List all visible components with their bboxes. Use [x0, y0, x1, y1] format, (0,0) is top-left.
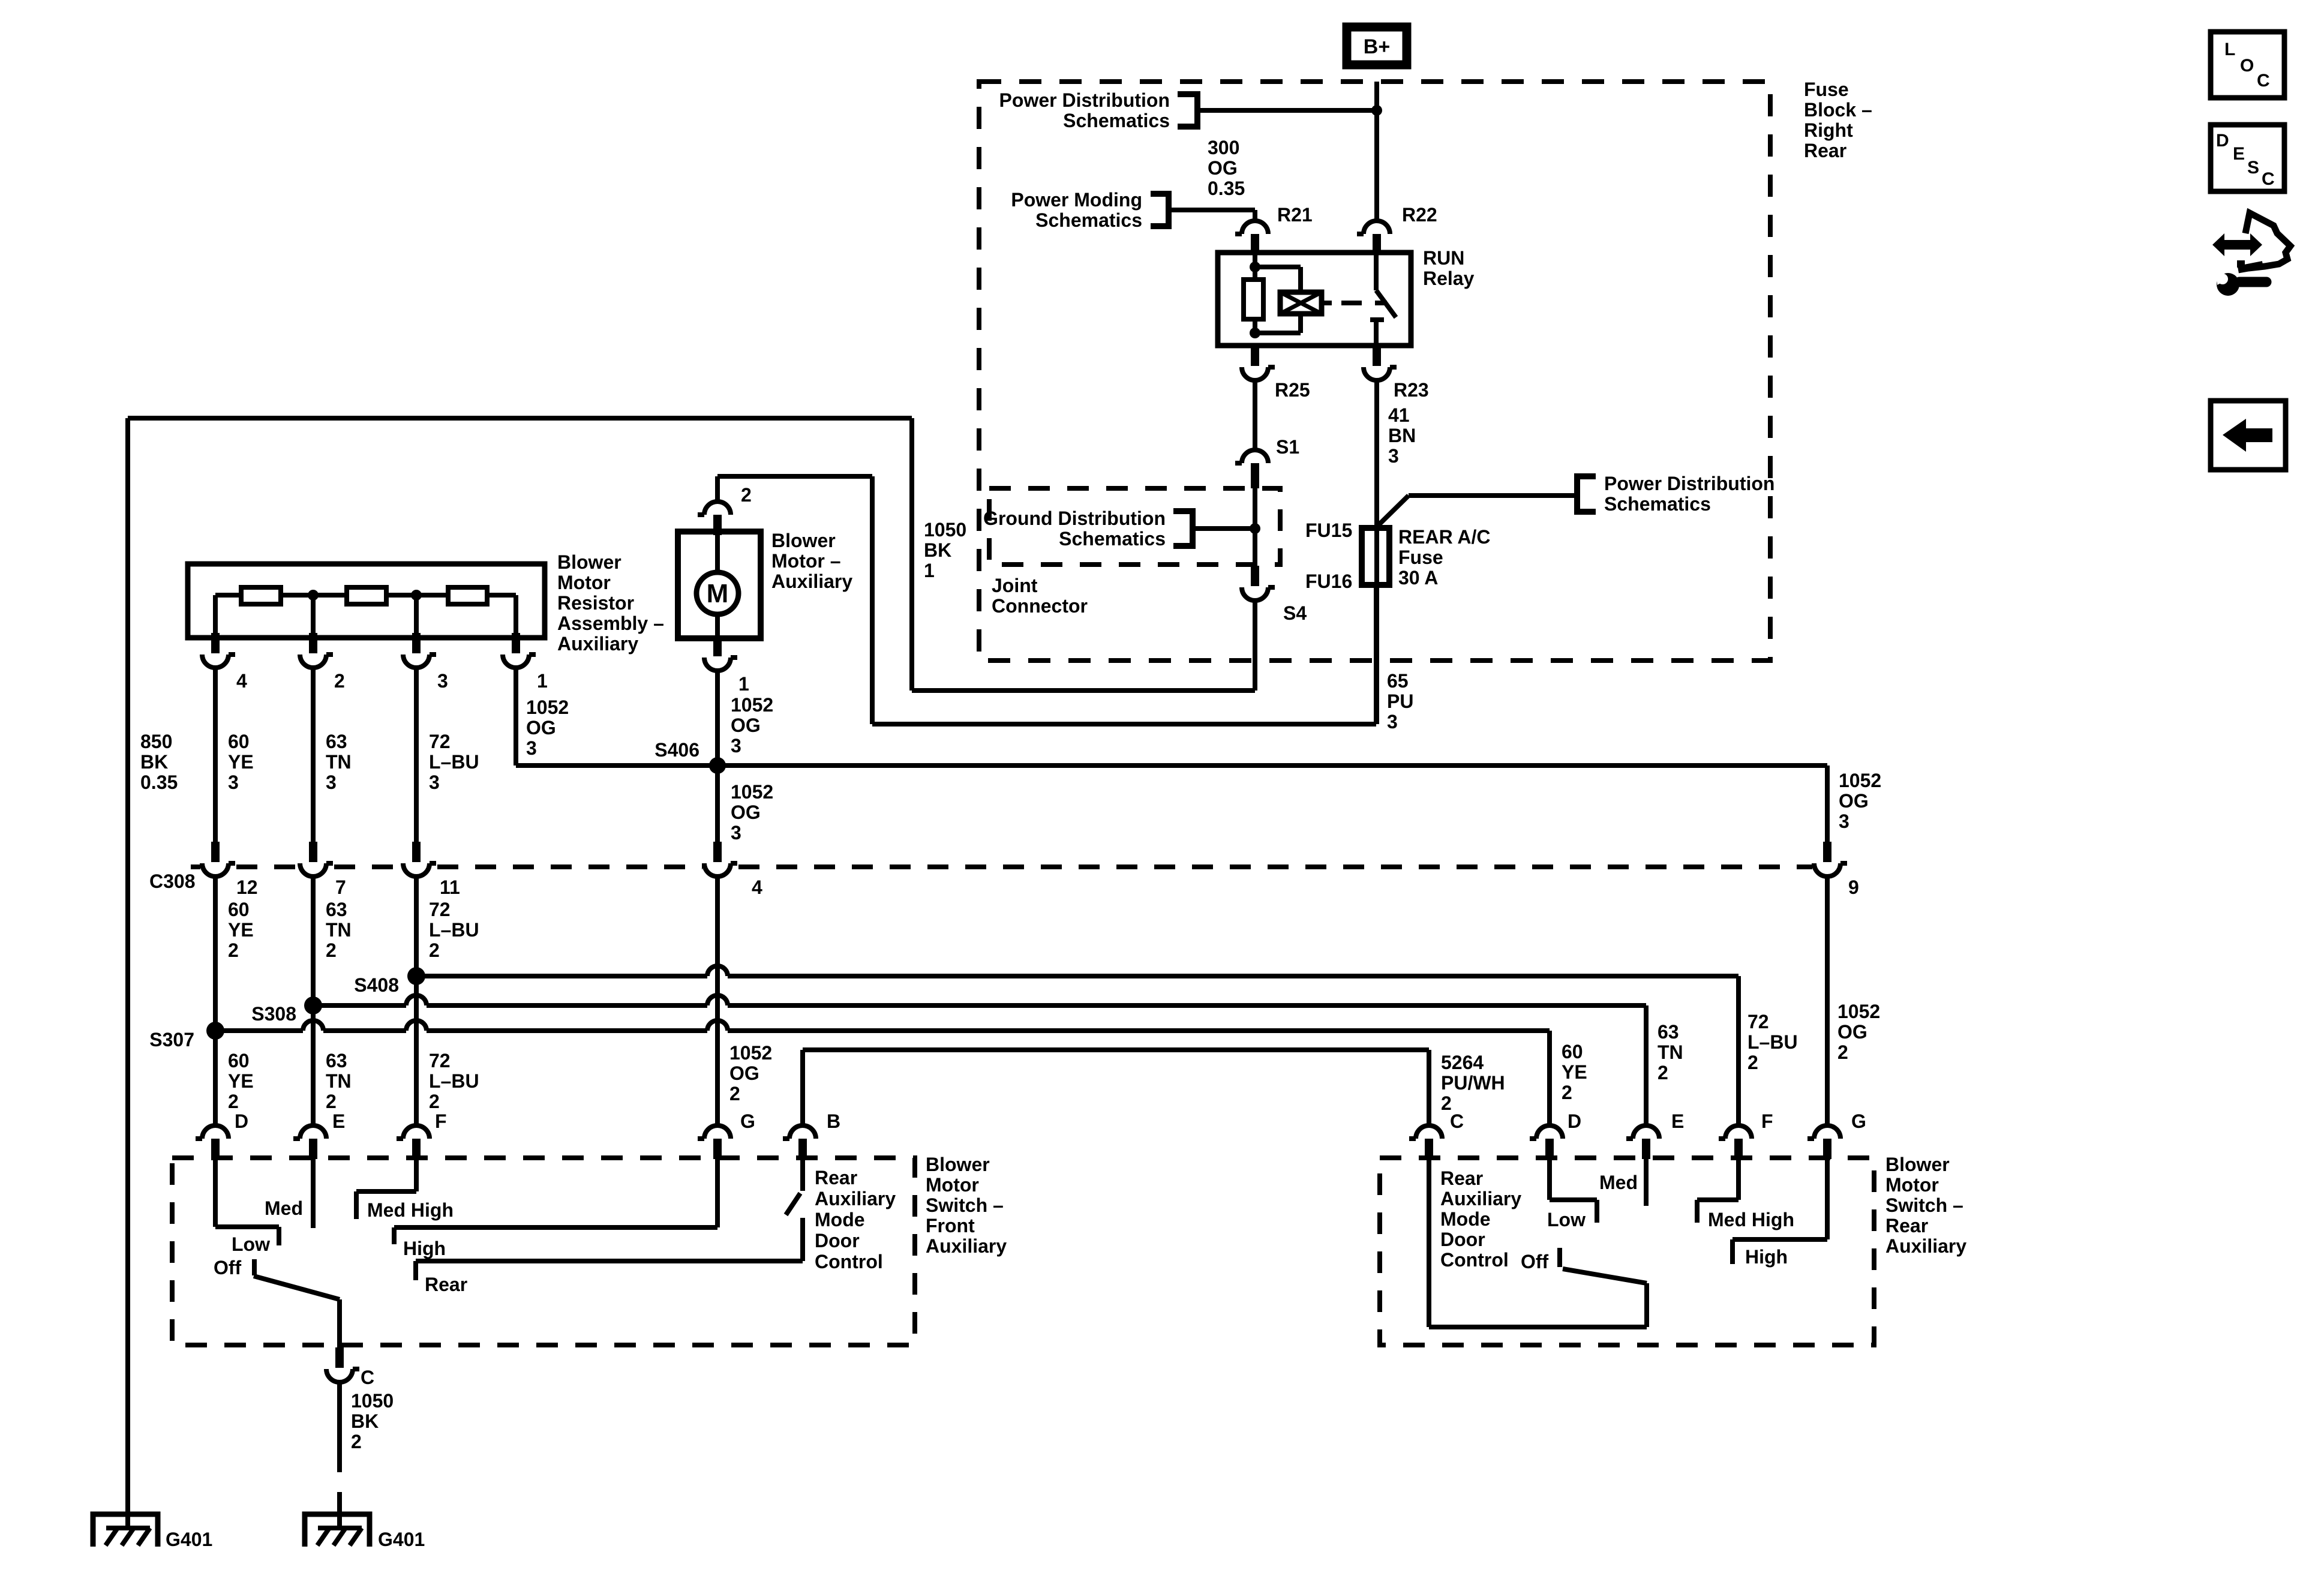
svg-text:63: 63 — [326, 731, 347, 752]
svg-text:Motor: Motor — [926, 1174, 979, 1196]
svg-text:Door: Door — [1440, 1229, 1485, 1250]
svg-text:Control: Control — [1440, 1249, 1509, 1271]
svg-text:41: 41 — [1388, 404, 1410, 426]
svg-text:2: 2 — [1562, 1082, 1572, 1103]
svg-text:S308: S308 — [251, 1003, 296, 1025]
svg-text:Motor –: Motor – — [771, 550, 841, 572]
svg-text:F: F — [435, 1110, 447, 1132]
svg-text:Off: Off — [1521, 1251, 1549, 1272]
svg-text:Blower: Blower — [771, 530, 836, 551]
svg-text:Auxiliary: Auxiliary — [1885, 1235, 1966, 1257]
svg-text:1052: 1052 — [1839, 770, 1881, 791]
svg-text:3: 3 — [429, 772, 440, 793]
svg-text:TN: TN — [326, 1070, 352, 1092]
svg-text:BK: BK — [140, 751, 168, 773]
svg-text:1: 1 — [738, 673, 749, 695]
svg-text:L–BU: L–BU — [429, 751, 479, 773]
svg-text:1052: 1052 — [729, 1042, 772, 1064]
svg-text:Fuse: Fuse — [1398, 547, 1443, 568]
svg-text:OG: OG — [1839, 790, 1869, 812]
svg-text:G: G — [1851, 1110, 1866, 1132]
svg-text:S307: S307 — [149, 1029, 194, 1050]
svg-text:850: 850 — [140, 731, 172, 752]
svg-text:Auxiliary: Auxiliary — [557, 633, 638, 655]
svg-text:1052: 1052 — [526, 697, 569, 718]
svg-text:300: 300 — [1208, 137, 1239, 158]
svg-text:Schematics: Schematics — [1059, 528, 1166, 550]
svg-text:Med: Med — [265, 1197, 303, 1219]
svg-text:60: 60 — [228, 731, 250, 752]
svg-text:Connector: Connector — [992, 595, 1088, 617]
svg-text:BN: BN — [1388, 425, 1416, 446]
svg-text:3: 3 — [526, 737, 537, 759]
svg-text:O: O — [2240, 56, 2254, 76]
svg-text:S4: S4 — [1283, 602, 1307, 624]
svg-text:S: S — [2247, 158, 2259, 178]
svg-text:Joint: Joint — [992, 575, 1038, 596]
svg-text:2: 2 — [429, 1091, 440, 1112]
svg-text:Resistor: Resistor — [557, 592, 634, 614]
svg-text:1052: 1052 — [1837, 1001, 1880, 1022]
svg-text:Assembly –: Assembly – — [557, 613, 664, 634]
svg-text:Right: Right — [1804, 119, 1853, 141]
svg-text:2: 2 — [1747, 1052, 1758, 1073]
svg-text:72: 72 — [429, 731, 451, 752]
svg-text:C: C — [2262, 169, 2275, 189]
svg-text:Off: Off — [214, 1257, 242, 1278]
svg-text:L–BU: L–BU — [429, 919, 479, 941]
svg-text:D: D — [2216, 131, 2229, 151]
svg-text:OG: OG — [729, 1062, 759, 1084]
svg-text:Med: Med — [1599, 1172, 1638, 1193]
svg-text:Blower: Blower — [926, 1154, 990, 1175]
svg-text:2: 2 — [1837, 1041, 1848, 1063]
svg-text:Door: Door — [815, 1230, 860, 1251]
svg-text:1052: 1052 — [731, 781, 773, 803]
svg-text:F: F — [1761, 1110, 1773, 1132]
svg-text:Auxiliary: Auxiliary — [1440, 1188, 1521, 1209]
svg-text:65: 65 — [1387, 670, 1409, 692]
svg-text:M: M — [707, 579, 729, 608]
svg-text:Auxiliary: Auxiliary — [771, 571, 852, 592]
svg-text:Switch –: Switch – — [1885, 1194, 1963, 1216]
svg-text:E: E — [332, 1110, 345, 1132]
svg-text:3: 3 — [731, 822, 741, 843]
svg-text:L: L — [2224, 40, 2235, 59]
svg-text:OG: OG — [1837, 1021, 1867, 1043]
svg-text:TN: TN — [326, 751, 352, 773]
svg-text:1: 1 — [537, 670, 548, 692]
svg-text:FU15: FU15 — [1305, 520, 1352, 541]
svg-text:Schematics: Schematics — [1063, 110, 1170, 131]
svg-text:Motor: Motor — [1885, 1174, 1939, 1196]
svg-text:C: C — [1450, 1110, 1464, 1132]
svg-text:R25: R25 — [1275, 379, 1310, 401]
svg-text:Mode: Mode — [1440, 1208, 1491, 1230]
svg-text:Schematics: Schematics — [1035, 209, 1142, 231]
svg-text:E: E — [2233, 144, 2245, 164]
svg-text:E: E — [1671, 1110, 1684, 1132]
svg-text:G401: G401 — [166, 1529, 212, 1550]
svg-text:Auxiliary: Auxiliary — [815, 1188, 896, 1209]
svg-text:G: G — [740, 1110, 755, 1132]
svg-text:2: 2 — [326, 939, 337, 961]
svg-text:Rear: Rear — [815, 1167, 857, 1188]
svg-text:Fuse: Fuse — [1804, 79, 1849, 100]
svg-text:S406: S406 — [654, 739, 699, 761]
svg-text:S1: S1 — [1276, 436, 1299, 458]
svg-text:1050: 1050 — [924, 519, 966, 541]
svg-text:72: 72 — [429, 899, 451, 920]
svg-text:3: 3 — [228, 772, 239, 793]
svg-text:3: 3 — [731, 735, 741, 757]
svg-text:2: 2 — [228, 1091, 239, 1112]
svg-text:TN: TN — [1658, 1041, 1683, 1063]
svg-text:Power Distribution: Power Distribution — [999, 89, 1170, 111]
svg-text:12: 12 — [236, 876, 258, 898]
svg-text:R21: R21 — [1277, 204, 1313, 226]
svg-text:Control: Control — [815, 1251, 883, 1272]
svg-text:60: 60 — [228, 1050, 250, 1071]
svg-text:REAR A/C: REAR A/C — [1398, 526, 1490, 548]
svg-text:Mode: Mode — [815, 1209, 865, 1230]
svg-text:Rear: Rear — [1804, 140, 1846, 161]
svg-text:High: High — [403, 1238, 446, 1259]
svg-text:Rear: Rear — [425, 1274, 467, 1295]
svg-text:63: 63 — [326, 899, 347, 920]
svg-text:YE: YE — [228, 751, 254, 773]
svg-text:3: 3 — [326, 772, 337, 793]
svg-text:Low: Low — [1547, 1209, 1586, 1230]
svg-text:FU16: FU16 — [1305, 571, 1352, 592]
svg-text:2: 2 — [326, 1091, 337, 1112]
svg-text:D: D — [235, 1110, 248, 1132]
svg-text:1: 1 — [924, 560, 935, 581]
svg-text:Motor: Motor — [557, 572, 611, 593]
svg-text:BK: BK — [351, 1410, 379, 1432]
svg-text:Blower: Blower — [557, 551, 621, 573]
svg-text:G401: G401 — [378, 1529, 425, 1550]
svg-text:72: 72 — [1747, 1011, 1769, 1032]
svg-text:B+: B+ — [1364, 35, 1390, 58]
svg-text:4: 4 — [752, 876, 762, 898]
svg-text:Ground Distribution: Ground Distribution — [983, 508, 1166, 529]
svg-text:TN: TN — [326, 919, 352, 941]
svg-text:OG: OG — [731, 715, 761, 736]
svg-text:C: C — [2257, 71, 2270, 91]
svg-text:5264: 5264 — [1441, 1052, 1484, 1073]
svg-text:2: 2 — [351, 1431, 362, 1452]
svg-text:4: 4 — [236, 670, 247, 692]
svg-text:63: 63 — [326, 1050, 347, 1071]
svg-text:Rear: Rear — [1440, 1167, 1483, 1189]
svg-text:Blower: Blower — [1885, 1154, 1950, 1175]
svg-text:60: 60 — [228, 899, 250, 920]
svg-text:S408: S408 — [354, 974, 399, 996]
svg-text:L–BU: L–BU — [1747, 1031, 1798, 1053]
svg-text:L–BU: L–BU — [429, 1070, 479, 1092]
svg-text:PU: PU — [1387, 691, 1413, 712]
svg-text:Power Distribution: Power Distribution — [1604, 473, 1774, 494]
svg-text:C: C — [361, 1367, 374, 1388]
svg-text:C308: C308 — [149, 870, 196, 892]
svg-text:11: 11 — [440, 876, 460, 898]
svg-text:Switch –: Switch – — [926, 1194, 1004, 1216]
svg-text:63: 63 — [1658, 1021, 1679, 1043]
svg-text:Front: Front — [926, 1215, 975, 1236]
svg-text:1050: 1050 — [351, 1390, 394, 1412]
svg-text:B: B — [827, 1110, 840, 1132]
svg-text:Schematics: Schematics — [1604, 493, 1711, 515]
svg-text:OG: OG — [526, 717, 556, 739]
svg-text:2: 2 — [1658, 1062, 1668, 1083]
svg-text:OG: OG — [731, 801, 761, 823]
svg-text:3: 3 — [437, 670, 448, 692]
svg-text:2: 2 — [429, 939, 440, 961]
svg-text:YE: YE — [228, 919, 254, 941]
svg-text:D: D — [1568, 1110, 1581, 1132]
svg-text:60: 60 — [1562, 1041, 1583, 1062]
svg-text:7: 7 — [335, 876, 346, 898]
svg-text:YE: YE — [228, 1070, 254, 1092]
svg-text:2: 2 — [334, 670, 345, 692]
svg-text:Med High: Med High — [367, 1199, 454, 1221]
svg-text:Block –: Block – — [1804, 99, 1872, 121]
svg-text:9: 9 — [1848, 876, 1859, 898]
svg-text:3: 3 — [1387, 711, 1398, 733]
svg-text:0.35: 0.35 — [140, 772, 178, 793]
svg-text:Power Moding: Power Moding — [1011, 189, 1142, 211]
svg-text:R22: R22 — [1402, 204, 1437, 226]
svg-text:R23: R23 — [1394, 379, 1429, 401]
svg-text:3: 3 — [1839, 810, 1849, 832]
svg-text:High: High — [1745, 1246, 1788, 1268]
svg-text:72: 72 — [429, 1050, 451, 1071]
svg-text:1052: 1052 — [731, 694, 773, 716]
svg-text:Auxiliary: Auxiliary — [926, 1235, 1007, 1257]
svg-text:2: 2 — [228, 939, 239, 961]
svg-text:2: 2 — [729, 1083, 740, 1104]
svg-text:Relay: Relay — [1423, 268, 1475, 289]
svg-text:YE: YE — [1562, 1061, 1587, 1083]
svg-text:RUN: RUN — [1423, 247, 1464, 269]
svg-text:30 A: 30 A — [1398, 567, 1438, 589]
svg-text:PU/WH: PU/WH — [1441, 1072, 1505, 1094]
svg-text:Med High: Med High — [1708, 1209, 1794, 1230]
svg-text:0.35: 0.35 — [1208, 178, 1245, 199]
svg-text:Rear: Rear — [1885, 1215, 1928, 1236]
svg-text:Low: Low — [232, 1233, 270, 1255]
svg-text:BK: BK — [924, 539, 951, 561]
svg-text:OG: OG — [1208, 157, 1238, 179]
svg-text:2: 2 — [741, 484, 752, 506]
svg-text:3: 3 — [1388, 445, 1399, 467]
